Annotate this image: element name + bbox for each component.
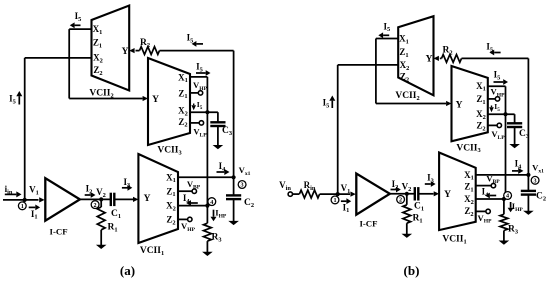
junction node2 (b) (405, 192, 409, 196)
wire Y to R2 (b) (440, 57, 442, 59)
ground R3 (a) (202, 252, 213, 256)
wire VCII1 Z1 (a) (178, 190, 192, 192)
svg-text:(a): (a) (120, 263, 135, 278)
wire to VCII3 Y (a) (69, 98, 142, 100)
resistor R2 (a) (140, 47, 160, 55)
wire Rin to node1 (b) (320, 193, 350, 195)
wire VCII1 X2 (b) (476, 198, 504, 200)
node 3 circle (a) (238, 181, 246, 189)
junction node4 (a) (205, 204, 209, 208)
junction node2 (a) (99, 197, 103, 201)
current arrow IHP (a) (213, 210, 215, 217)
node 1 circle (a) (18, 202, 26, 210)
resistor R1 (b) (406, 194, 408, 205)
wire VCII1 Z2 (a) (178, 218, 187, 220)
svg-text:I-CF: I-CF (50, 227, 68, 237)
capacitor C1 (b) (414, 187, 416, 200)
junction X2-vert (b) (503, 112, 507, 116)
resistor R2 (b) (442, 55, 462, 63)
wire VCII3 Z1 (b) (488, 98, 495, 100)
svg-text:1: 1 (21, 203, 24, 210)
svg-text:Y: Y (426, 55, 433, 65)
wire C1 to VCII1 Y (b) (419, 193, 434, 195)
wire VCII2 X2 (b) (338, 64, 399, 66)
node 2 circle (b) (397, 196, 405, 204)
wire VCII3 X2 (b) (488, 113, 515, 115)
wire VCII2 X2 (a) (25, 57, 92, 59)
resistor R3 (a) (206, 206, 208, 224)
arrowhead into I-CF (a) (39, 197, 44, 202)
op-block VCII2 (a) (92, 6, 130, 91)
current arrow i_in (a) (5, 193, 16, 195)
buffer I-CF (a) (45, 178, 80, 221)
arrowhead into VCII2 Y (a) (129, 48, 134, 53)
svg-text:2: 2 (94, 202, 97, 209)
wire I-CF out to C1 (a) (80, 198, 111, 200)
svg-text:4: 4 (506, 193, 509, 200)
op-block VCII1 (a) (138, 154, 178, 243)
terminal Vin (b) (288, 192, 292, 196)
wire VCII1 X1 (a) (178, 176, 234, 178)
current arrow I4 (a) (217, 171, 225, 173)
current arrow I5 at X1 (b) (494, 81, 504, 83)
svg-text:Y: Y (152, 95, 159, 105)
current arrow I5 left (a) (18, 96, 20, 104)
current arrow I1 (a) (29, 206, 36, 208)
svg-text:1: 1 (333, 197, 336, 204)
resistor Rin (b) (299, 190, 319, 198)
current arrow I5 left (b) (331, 101, 333, 108)
arrowhead into I-CF (b) (350, 192, 355, 197)
ground R1 (a) (96, 245, 107, 249)
current arrow I1 (b) (341, 200, 347, 202)
node 3 circle (b) (531, 176, 539, 184)
terminal VHP VCII1 (b) (486, 209, 490, 213)
svg-text:VCII1: VCII1 (140, 246, 164, 257)
svg-text:Y: Y (144, 194, 151, 204)
node 1 circle (b) (331, 196, 339, 204)
ground C3 (a) (213, 145, 224, 149)
svg-text:2: 2 (399, 197, 402, 204)
svg-text:VCII3: VCII3 (157, 146, 181, 157)
op-block VCII3 (b) (452, 66, 488, 141)
current arrow I4 (b) (512, 170, 518, 172)
terminal VBP VCII1 (a) (192, 189, 196, 193)
ground C3 (b) (509, 144, 520, 148)
current arrow I5 top-left (b) (383, 34, 389, 36)
current arrow I4 at X2 (a) (191, 202, 198, 204)
junction node1 (a) (23, 198, 27, 202)
resistor R3 (b) (503, 199, 505, 214)
wire VCII3 Z2 (a) (190, 122, 199, 124)
current arrow I2 (a) (85, 194, 91, 196)
resistor R1 (a) (100, 199, 102, 207)
op-block VCII3 (a) (148, 58, 190, 145)
op-block VCII2 (b) (398, 16, 433, 95)
capacitor C3 (a) (217, 112, 219, 121)
svg-text:VCII3: VCII3 (456, 143, 480, 154)
svg-text:Y: Y (456, 101, 463, 111)
ground R1 (b) (402, 234, 413, 238)
current arrow I5 top-right (a) (196, 43, 203, 45)
svg-text:3: 3 (534, 178, 537, 185)
wire R2 to right rail (a) (160, 50, 234, 52)
current arrow I2 (b) (391, 189, 397, 191)
arrowhead into VCII3 Y (a) (143, 96, 148, 101)
arrowhead into VCII3 Y (b) (446, 101, 451, 106)
buffer I-CF (b) (356, 174, 390, 215)
terminal VBP VCII1 (b) (491, 183, 495, 187)
wire VCII2 X1 (a) (69, 28, 91, 30)
wire VCII2 X1 (b) (376, 38, 398, 40)
wire VCII3 X2 (a) (190, 111, 218, 113)
svg-text:Y: Y (122, 47, 129, 57)
ground C2 (a) (228, 221, 239, 225)
ground R3 (b) (499, 241, 510, 245)
svg-text:I-CF: I-CF (359, 218, 377, 228)
wire VCII1 X2 (a) (178, 205, 207, 207)
arrowhead into VCII1 Y (a) (133, 197, 138, 202)
current arrow I5 top-right (b) (494, 52, 500, 54)
svg-text:3: 3 (241, 182, 244, 189)
wire VCII1 X1 (b) (476, 174, 529, 176)
current arrow I3 (b) (425, 183, 431, 185)
svg-text:Y: Y (444, 190, 451, 200)
node 4 circle (a) (208, 198, 216, 206)
ground C2 (b) (523, 211, 534, 215)
wire Vin to Rin (b) (293, 193, 300, 195)
current arrow I5 at X1 (a) (196, 72, 206, 74)
wire VCII3 X1 (b) (488, 85, 506, 87)
wire input (a) (3, 199, 39, 201)
current arrow I4 at X2 (b) (490, 195, 496, 197)
wire VCII1 Z1 (b) (476, 185, 491, 187)
wire C1 to VCII1 Y (a) (114, 198, 133, 200)
op-block VCII1 (b) (439, 153, 476, 231)
current arrow I5 top-left (a) (75, 24, 81, 26)
arrowhead into VCII2 Y (b) (434, 56, 439, 61)
terminal VLP VCII3 (a) (199, 121, 203, 125)
capacitor C3 (b) (514, 114, 516, 122)
junction node4 (b) (502, 197, 506, 201)
terminal VHP VCII3 (b) (495, 97, 499, 101)
current arrow I3 (a) (122, 187, 128, 189)
wire I-CF out to C1 (b) (390, 193, 415, 195)
node 4 circle (b) (504, 192, 512, 200)
wire VCII3 Z1 (a) (190, 92, 198, 94)
current arrow I5 small down (b) (491, 106, 493, 108)
wire VCII3 Z2 (b) (488, 124, 497, 126)
node 2 circle (a) (91, 201, 99, 209)
terminal VHP VCII1 (a) (188, 217, 192, 221)
svg-text:4: 4 (210, 199, 213, 206)
junction X2-vert (a) (205, 110, 209, 114)
junction node1 (b) (336, 192, 340, 196)
capacitor C2 (a) (233, 177, 235, 194)
capacitor C1 (a) (110, 193, 112, 206)
wire VCII3 X1 (a) (190, 76, 207, 78)
svg-text:VCII1: VCII1 (442, 235, 466, 246)
terminal VHP VCII3 (a) (198, 91, 202, 95)
wire R2 to right rail (b) (462, 57, 529, 59)
capacitor C2 (b) (527, 175, 529, 190)
current arrow IHP (b) (510, 202, 512, 208)
wire to VCII3 Y (b) (376, 103, 446, 105)
svg-text:VCII2: VCII2 (395, 91, 419, 102)
terminal VLP VCII3 (b) (497, 123, 501, 127)
current arrow I5 small down (a) (193, 104, 195, 106)
junction X1-rail (b) (526, 173, 530, 177)
wire Y to R2 (a) (136, 50, 140, 52)
arrowhead into VCII1 Y (b) (434, 191, 439, 196)
wire VCII1 Z2 (b) (476, 210, 486, 212)
junction X1-rail (a) (232, 175, 236, 179)
svg-text:(b): (b) (404, 263, 420, 278)
